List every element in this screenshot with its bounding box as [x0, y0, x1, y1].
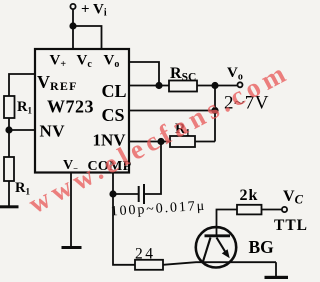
wire to Vc pin: [73, 26, 102, 49]
wire input vertical: [72, 9, 74, 49]
svg-text:CS: CS: [102, 105, 125, 125]
resistor 2k: [237, 205, 262, 215]
wire R1 to R1: [8, 118, 10, 157]
wire R1 to ground: [8, 181, 10, 206]
wire capacitor to 1NV net: [144, 142, 161, 195]
wire 2k to base: [217, 210, 238, 237]
wire Vo pin: [129, 62, 159, 86]
node input junction: [69, 22, 76, 29]
svg-text:W723: W723: [47, 97, 94, 117]
ground left: [0, 205, 19, 208]
svg-text:TTL: TTL: [274, 217, 308, 234]
wire to right ground: [275, 262, 277, 276]
wire output bus vertical: [214, 86, 216, 142]
transistor Q1 BG circle: [196, 227, 236, 267]
transistor base bar: [205, 234, 231, 237]
svg-text:+ Vi: + Vi: [81, 2, 107, 19]
capacitor C1 plates: [138, 186, 140, 202]
resistor 24: [135, 260, 163, 270]
node Vo junction: [211, 82, 218, 89]
transistor collector line with arrow: [217, 238, 227, 254]
wire COMP down: [112, 173, 114, 195]
svg-text:2k: 2k: [240, 187, 259, 204]
wire to capacitor: [113, 193, 138, 195]
resistor Rsc: [169, 81, 197, 92]
wire V- to ground: [70, 173, 72, 247]
wire VREF to R1: [9, 74, 35, 96]
resistor R1 upper: [4, 96, 15, 118]
node NV junction: [5, 126, 12, 133]
terminal Vc: [282, 207, 287, 212]
node COMP junction: [109, 190, 116, 197]
svg-text:24: 24: [135, 245, 156, 262]
node CL junction: [155, 82, 162, 89]
terminal +Vi: [70, 4, 75, 9]
node CS junction: [211, 107, 218, 114]
wire 1NV pin: [129, 141, 170, 143]
resistor R1 right: [170, 136, 195, 147]
node 1NV junction: [157, 138, 164, 145]
terminal Vo: [238, 82, 243, 87]
svg-text:CL: CL: [102, 81, 127, 101]
svg-text:NV: NV: [40, 122, 66, 141]
wire CL pin: [129, 85, 169, 87]
wire NV: [9, 129, 35, 131]
ground right: [265, 276, 289, 279]
wire Rsc to Vo terminal: [197, 85, 238, 87]
ground V-: [62, 246, 82, 249]
wire 2k to Vc terminal: [262, 209, 283, 211]
wire bottom emitter net: [113, 194, 163, 265]
op-amp U1 W723 box: [35, 49, 129, 173]
wire CS pin: [129, 110, 215, 112]
wire R1 to bus: [195, 141, 215, 143]
transistor emitter line: [203, 238, 211, 262]
resistor R1 lower: [4, 157, 14, 181]
svg-text:BG: BG: [249, 237, 275, 257]
